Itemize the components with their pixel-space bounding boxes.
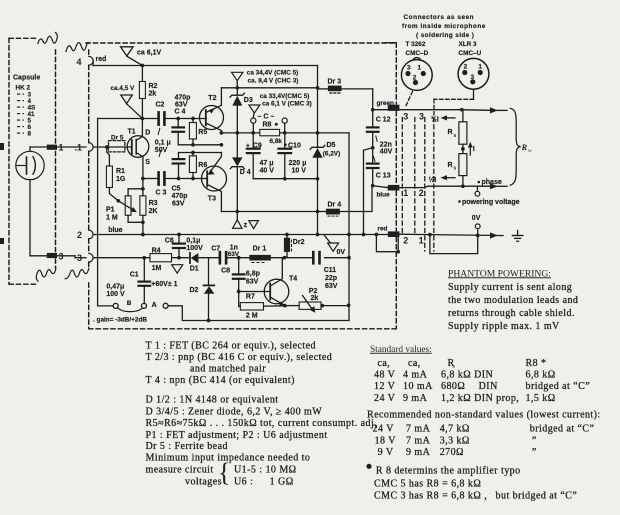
junction dot (372.7,185.7) — [371, 184, 375, 188]
rail 2 (y=87.8) T2 emitter feed — [221, 87, 317, 89]
junction dot (317.5,178.7) — [316, 177, 320, 181]
svg-text:7 mA: 7 mA — [406, 435, 431, 446]
svg-text:100 V: 100 V — [106, 291, 125, 298]
C9/C10 bottom wire — [253, 178, 317, 180]
svg-text:.1: .1 — [75, 143, 83, 153]
svg-text:4,7 kΩ: 4,7 kΩ — [440, 423, 470, 434]
junction dot (429.9,234.6) — [428, 233, 432, 237]
svg-text:blue: blue — [108, 227, 122, 234]
svg-text:ca 6,1 V (CMC 3): ca 6,1 V (CMC 3) — [262, 101, 312, 108]
svg-text:12 V: 12 V — [374, 381, 396, 392]
svg-text:C8: C8 — [221, 267, 230, 274]
capsule enclosure (dashed box) — [9, 37, 38, 39]
choke Dr3 — [330, 92, 332, 94]
current label half-I (bottom) — [446, 177, 455, 179]
junction dot (178.2,118.5) — [176, 117, 180, 121]
junction dot (208.5,320.5) — [207, 319, 211, 323]
capsule microphone symbol — [16, 151, 44, 179]
svg-text:2k: 2k — [149, 90, 157, 97]
svg-text:24 V: 24 V — [373, 423, 395, 434]
current arrow I — [468, 142, 473, 148]
svg-text:Dr 3: Dr 3 — [328, 78, 342, 85]
svg-text:T3: T3 — [208, 196, 216, 203]
svg-text:10 V: 10 V — [292, 167, 307, 174]
svg-text:1,5 kΩ: 1,5 kΩ — [526, 393, 556, 404]
resistor R4 1M — [150, 254, 172, 262]
chassis ground symbol — [512, 235, 522, 237]
wire capsule-3 to amp input — [57, 255, 75, 257]
junction dot (179,234.5) — [177, 233, 181, 237]
voltage marker ca 33,4V / 6,1V — [249, 105, 260, 113]
junction dot (142.9,222.3) — [141, 220, 145, 224]
junction dot (398.2,251.7) — [396, 250, 400, 254]
junction dot (253.2,132.9) — [251, 131, 255, 135]
svg-text:+: + — [246, 142, 250, 149]
junction dot (372.7,147.8) — [371, 146, 375, 150]
junction dot (376.4,234.5) — [375, 233, 379, 237]
capacitor C3 470p — [157, 172, 160, 184]
svg-text:R: R — [521, 142, 528, 152]
svg-text:3: 3 — [407, 64, 411, 71]
svg-text:100V: 100V — [186, 245, 203, 252]
svg-text:Dr2: Dr2 — [293, 239, 305, 246]
junction dot (144.3,257.7) — [142, 256, 146, 260]
svg-text:1M: 1M — [152, 265, 162, 272]
svg-text:CMC–D: CMC–D — [406, 50, 429, 57]
svg-text:and matched pair: and matched pair — [190, 363, 266, 374]
svg-text:B: B — [127, 300, 132, 307]
svg-text:1: 1 — [419, 236, 424, 246]
current label half-I (top) — [446, 117, 455, 119]
svg-text:P1 : FET adjustment; P2 : U6: P1 : FET adjustment; P2 : U6 adjustment — [146, 430, 328, 441]
green terminal block — [388, 105, 400, 111]
arrowhead phase lead — [490, 183, 498, 189]
junction dot (237.3,132.9) — [235, 131, 239, 135]
resistor R1 1G — [106, 147, 108, 152]
choke Dr2 (vertical) — [286, 235, 288, 238]
svg-text:1 M: 1 M — [106, 214, 118, 221]
svg-text:1: 1 — [59, 142, 64, 152]
svg-text:CMC–U: CMC–U — [459, 50, 482, 57]
svg-text:C 13: C 13 — [376, 173, 391, 180]
svg-text:2: 2 — [419, 188, 424, 198]
capacitor C6 0,1u — [178, 235, 180, 244]
svg-text:Recommended non-standard value: Recommended non-standard values (lowest … — [367, 410, 601, 421]
svg-text:ca 33,4V(CMC 5): ca 33,4V(CMC 5) — [260, 93, 310, 100]
bullet powering voltage — [458, 200, 461, 203]
svg-text:R3: R3 — [149, 200, 158, 207]
svg-text:47 μ: 47 μ — [260, 160, 274, 167]
svg-text:”: ” — [532, 447, 537, 458]
amplifier enclosure (dashed box) — [66, 42, 89, 51]
choke Dr4 — [328, 215, 330, 217]
svg-text:T2: T2 — [208, 95, 216, 102]
svg-text:63V: 63V — [325, 283, 338, 290]
svg-text:”: ” — [532, 435, 537, 446]
junction dot (118.3,200.8) — [116, 199, 120, 203]
svg-text:C 3: C 3 — [156, 189, 167, 196]
resistor R3 2K — [140, 196, 146, 216]
svg-text:3: 3 — [59, 252, 64, 262]
pin 2 T3262 — [413, 80, 418, 85]
svg-text:T 3262: T 3262 — [406, 41, 426, 48]
svg-text:C2: C2 — [156, 102, 165, 109]
svg-text:ca. 8,4 V (CHC 3): ca. 8,4 V (CHC 3) — [248, 78, 299, 85]
zener D3 — [236, 88, 238, 95]
scan artifact — [0, 238, 4, 244]
capacitor C9 47u electrolytic — [252, 133, 254, 148]
capsule terminal 3 block — [47, 253, 57, 258]
capacitor C10 220u electrolytic — [284, 133, 286, 148]
outside 0V return hook — [430, 235, 478, 254]
svg-text:0,1 μ: 0,1 μ — [155, 139, 171, 146]
voltage marker ca 34,4V / 8,4V — [232, 72, 243, 80]
D1 diode triangle — [191, 253, 199, 263]
junction dot (462.9,148.9) — [461, 147, 465, 151]
vertical link x=97.6 — [97, 119, 99, 306]
svg-text:18 V: 18 V — [375, 435, 397, 446]
junction dot (193,118.5) — [191, 117, 195, 121]
supply rail 1 (y=65.5) from terminal 4 — [92, 61, 94, 66]
blue conductor / phase wire — [399, 187, 424, 189]
gain link A/B terminals — [113, 303, 118, 308]
zener D5 6,2V — [310, 145, 325, 149]
pin 1 XLR3 — [478, 70, 483, 75]
capacitor C11 22p — [312, 252, 315, 263]
svg-text:0,1μ: 0,1μ — [186, 237, 200, 244]
svg-text:½I: ½I — [429, 176, 437, 184]
resistor R5 — [189, 123, 196, 140]
svg-text:4: 4 — [77, 57, 82, 67]
svg-text:Connectors as seen: Connectors as seen — [404, 14, 475, 21]
svg-text:0,47μ: 0,47μ — [106, 283, 124, 290]
reference marker triangles z — [236, 212, 238, 220]
svg-text:measure circuit: measure circuit — [146, 464, 214, 475]
svg-text:P2: P2 — [309, 288, 318, 295]
svg-text:2: 2 — [464, 63, 468, 70]
wire W178 lower signal — [143, 178, 157, 180]
svg-text:3: 3 — [77, 253, 82, 263]
svg-text:2 M: 2 M — [246, 312, 258, 319]
svg-text:– C –: – C – — [258, 113, 275, 120]
svg-text:63V: 63V — [246, 278, 259, 285]
svg-text:CMC 3 has R8 = 6,8 kΩ , but b: CMC 3 has R8 = 6,8 kΩ , but bridged at “… — [374, 490, 577, 501]
JFET T1 BC264 — [127, 136, 149, 158]
0V-to-red hook (inside) — [376, 235, 398, 252]
svg-text:0V: 0V — [472, 215, 481, 222]
resistor R7 2M — [240, 303, 263, 310]
junction dot (142.9,234.5) — [141, 233, 145, 237]
svg-text:D 1/2 : 1N 4148 or equivalent: D 1/2 : 1N 4148 or equivalent — [146, 395, 279, 406]
choke Dr2 body — [284, 238, 290, 252]
svg-text:680Ω DIN: 680Ω DIN — [441, 381, 498, 392]
svg-text:R: R — [448, 162, 453, 169]
svg-text:R1: R1 — [116, 168, 125, 175]
output vertical x=349 — [348, 133, 350, 321]
resistor Rs lower — [459, 154, 467, 176]
D2 diode triangle — [204, 286, 215, 294]
footnote bullet — [366, 464, 371, 469]
svg-text:ca 34,4V (CMC 5): ca 34,4V (CMC 5) — [247, 70, 298, 77]
junction dot (142.9,178.5) — [141, 177, 145, 181]
bridge C terminals — [251, 118, 256, 123]
junction dot (477.7,235.4) — [476, 234, 480, 238]
svg-text:C7: C7 — [211, 246, 220, 253]
svg-text:6,8 kΩ DIN: 6,8 kΩ DIN — [441, 370, 493, 381]
wire W144.8 — [178, 144, 221, 146]
trimmer P2 2k — [299, 302, 321, 309]
svg-text:CMC 5 has R8 = 6,8 kΩ: CMC 5 has R8 = 6,8 kΩ — [374, 478, 481, 489]
scan artifact — [0, 143, 4, 150]
svg-text:63V: 63V — [228, 251, 240, 258]
svg-text:8: 8 — [28, 130, 32, 137]
capacitor C13 — [364, 148, 373, 150]
ferrite bead Dr5 (dashed) — [109, 141, 125, 152]
svg-text:2: 2 — [413, 74, 417, 81]
choke Dr3 body — [328, 86, 342, 92]
svg-text:6,8p: 6,8p — [246, 270, 260, 277]
choke Dr4 body — [326, 209, 340, 215]
svg-text:Dr 4: Dr 4 — [328, 201, 342, 208]
svg-text:(6,2V): (6,2V) — [323, 151, 340, 158]
svg-text:A: A — [152, 302, 157, 309]
transistor T4 npn — [264, 279, 289, 304]
svg-text:PHANTOM POWERING:: PHANTOM POWERING: — [448, 268, 551, 279]
svg-text:XLR 3: XLR 3 — [459, 41, 478, 48]
svg-text:. gain= -3dB/+2dB: . gain= -3dB/+2dB — [93, 316, 147, 323]
svg-text:4 mA: 4 mA — [403, 370, 428, 381]
junction dot (142.4,118.5) — [141, 117, 145, 121]
R8 asterisk dot — [275, 123, 278, 126]
junction dot (317.5,211.5) — [316, 210, 320, 214]
svg-text:48 V: 48 V — [374, 370, 396, 381]
connector leads (dashed) — [406, 92, 413, 106]
junction dot (142.9,188.8) — [141, 187, 145, 191]
svg-text:S: S — [145, 159, 150, 166]
wire W152.5 — [179, 152, 222, 154]
svg-text:D: D — [145, 130, 150, 137]
trimmer P1 — [125, 196, 131, 216]
capacitor C2 470p — [157, 112, 160, 124]
svg-text:R4: R4 — [152, 247, 161, 254]
svg-text:R2: R2 — [149, 83, 158, 90]
svg-text:2K: 2K — [149, 208, 158, 215]
junction dot (142.4,65.5) — [141, 64, 145, 68]
junction dot (317.5,234.5) — [316, 233, 320, 237]
svg-text:D1: D1 — [190, 266, 199, 273]
D5 zener triangle — [312, 148, 322, 158]
junction dot (142.9,234.5) — [141, 233, 145, 237]
cable pair 1 (dashed) — [401, 118, 403, 234]
svg-text:Dr 1: Dr 1 — [253, 246, 267, 253]
current arrow half-I top — [441, 115, 448, 120]
input terminal bumps on left edge — [89, 56, 93, 65]
capacitor C5 (vertical) — [178, 153, 180, 159]
diode D2 (shunt) — [208, 258, 210, 284]
junction dot (238.7,291.5) — [237, 290, 241, 294]
svg-text:z: z — [244, 222, 248, 229]
svg-text:T 4 : npn (BC 414 (or equival: T 4 : npn (BC 414 (or equivalent) — [146, 375, 295, 386]
junction dot (178.5,178.5) — [177, 177, 181, 181]
junction dot (348.6,305.3) — [347, 303, 351, 307]
svg-text:6,8 kΩ: 6,8 kΩ — [526, 370, 556, 381]
bullet phase — [478, 181, 481, 184]
svg-text:s: s — [454, 133, 457, 139]
svg-text:22p: 22p — [325, 275, 337, 282]
junction dot (322.3,305.6) — [320, 304, 324, 308]
junction dot (372.7,109.7) — [371, 108, 375, 112]
svg-text:40V: 40V — [380, 148, 393, 155]
svg-text:9 mA: 9 mA — [403, 393, 428, 404]
svg-text:T4: T4 — [289, 275, 297, 282]
C10 polarity dot — [284, 143, 287, 146]
svg-text:P1: P1 — [106, 206, 115, 213]
transistor T2 pnp — [200, 106, 224, 130]
svg-text:Dr 5: Dr 5 — [111, 134, 124, 141]
arrowhead 0V lead — [490, 232, 498, 238]
svg-text:from inside microphone: from inside microphone — [402, 23, 486, 30]
0V marker triangle — [325, 236, 331, 244]
svg-text:Supply current is sent along: Supply current is sent along — [448, 282, 572, 293]
svg-text:R7: R7 — [246, 293, 255, 300]
supply vertical x=317.5 — [317, 66, 319, 147]
pin 3 XLR3 — [470, 79, 475, 84]
choke Dr1 — [252, 262, 254, 264]
junction dot (317.5,132.9) — [316, 131, 320, 135]
current arrow I — [469, 146, 471, 155]
voltage marker +60V — [172, 265, 183, 274]
pin 3 T3262 — [405, 71, 410, 76]
wire W118 signal top — [98, 118, 158, 120]
svg-text:red: red — [96, 56, 107, 63]
red conductor / 0V wire — [399, 233, 430, 235]
junction dot (349,234.5) — [347, 233, 351, 237]
svg-text:2: 2 — [403, 236, 408, 246]
svg-text:9 mA: 9 mA — [406, 447, 431, 458]
brace Rw load — [510, 108, 520, 185]
svg-text:470p: 470p — [175, 94, 191, 101]
junction dot (193,144.8) — [191, 143, 195, 147]
svg-text:1G: 1G — [116, 176, 126, 183]
junction dot (287,234.5) — [285, 233, 289, 237]
svg-text:2k: 2k — [311, 295, 319, 302]
svg-text:63V: 63V — [172, 200, 185, 207]
capacitor C4 (vertical) — [177, 119, 179, 128]
svg-text:Capsule: Capsule — [13, 75, 40, 82]
arrowhead green lead — [490, 107, 498, 113]
junction dot (221.4,144.8) — [220, 143, 224, 147]
blue terminal block — [388, 185, 400, 191]
svg-text:220 μ: 220 μ — [289, 160, 307, 167]
svg-text:1: 1 — [418, 64, 422, 71]
voltage marker ca 6,1V — [121, 47, 134, 56]
svg-text:D 4: D 4 — [240, 169, 251, 176]
svg-text:270Ω: 270Ω — [440, 447, 464, 458]
pin 2 XLR3 — [462, 70, 467, 75]
P1 wiper arrowhead — [131, 207, 137, 212]
svg-text:C5: C5 — [172, 185, 181, 192]
transistor T3 pnp — [202, 166, 227, 191]
svg-text:R5≈R6≈75kΩ . . . 150kΩ tot, c: R5≈R6≈75kΩ . . . 150kΩ tot, current cons… — [146, 418, 378, 429]
svg-text:D5: D5 — [327, 142, 336, 149]
svg-text:7 mA: 7 mA — [406, 423, 431, 434]
svg-text:s: s — [454, 166, 457, 172]
svg-text:0V: 0V — [337, 249, 346, 256]
resistor R2 2k — [141, 66, 143, 82]
svg-text:1: 1 — [403, 188, 408, 198]
svg-text:40 V: 40 V — [260, 167, 275, 174]
zener D4 — [236, 133, 238, 157]
T2 emitter arrow — [209, 108, 215, 113]
green conductor wire — [399, 109, 459, 111]
junction dot (284.8,305.6) — [283, 304, 287, 308]
svg-text:ca 6,1V: ca 6,1V — [137, 50, 161, 57]
main mid rail (y=132.9) — [221, 132, 349, 134]
svg-text:1,2 kΩ DIN prop,: 1,2 kΩ DIN prop, — [441, 393, 519, 404]
svg-text:C10: C10 — [288, 143, 301, 150]
wire capsule-1 to amp input — [57, 146, 86, 148]
second stage input wire y=257.7 — [93, 257, 150, 259]
svg-text:470p: 470p — [172, 193, 188, 200]
svg-text:½I: ½I — [431, 116, 439, 124]
capsule list leader dots — [17, 94, 20, 95]
junction dot (221.4,132.9) — [220, 131, 224, 135]
D4 zener triangle — [232, 157, 242, 166]
capacitor C8 6,8p — [238, 258, 240, 274]
connector T3262 CMC-D — [401, 60, 432, 91]
P2 wiper arrowhead — [309, 306, 315, 313]
svg-text:U6 : 1 GΩ: U6 : 1 GΩ — [234, 476, 294, 487]
svg-text:3,3 kΩ: 3,3 kΩ — [440, 435, 470, 446]
0V output node — [475, 224, 480, 229]
svg-text:R6: R6 — [198, 162, 207, 169]
svg-text:D 3/4/5 : Zener diode, 6,2 V,: D 3/4/5 : Zener diode, 6,2 V, ≥ 400 mW — [146, 406, 323, 417]
svg-text:+60V± 1: +60V± 1 — [151, 281, 177, 288]
svg-text:red: red — [378, 225, 388, 232]
svg-text:1: 1 — [478, 63, 482, 70]
junction dot (193,178.5) — [191, 177, 195, 181]
junction dot (349,257.7) — [347, 256, 351, 260]
svg-text:C 4: C 4 — [175, 108, 186, 115]
svg-text:22n: 22n — [380, 141, 392, 148]
svg-text:C1: C1 — [130, 272, 139, 279]
svg-text:R8: R8 — [263, 122, 272, 129]
blue terminal wire — [373, 186, 388, 188]
svg-text:U1-5 : 10 MΩ: U1-5 : 10 MΩ — [234, 464, 297, 475]
junction dot (284.8,178.7) — [283, 177, 287, 181]
choke Dr1 body — [249, 255, 270, 261]
svg-text:D2: D2 — [190, 287, 199, 294]
svg-text:Standard values:: Standard values: — [370, 345, 432, 355]
svg-text:3: 3 — [419, 111, 424, 121]
svg-text:voltages: voltages — [185, 476, 222, 487]
svg-text:C 12: C 12 — [376, 117, 391, 124]
svg-text:powering voltage: powering voltage — [462, 199, 520, 206]
svg-text:R: R — [448, 129, 453, 136]
svg-text:C11: C11 — [324, 267, 337, 274]
svg-text:R8 *: R8 * — [526, 358, 547, 369]
junction dot (193,152.5) — [191, 151, 195, 155]
svg-text:T1: T1 — [128, 128, 136, 135]
D3 zener triangle — [232, 96, 242, 106]
svg-text:C6: C6 — [165, 237, 174, 244]
svg-text:9 V: 9 V — [378, 447, 394, 458]
pin 1 T3262 — [421, 71, 426, 76]
T3 emitter arrow — [208, 169, 215, 175]
svg-text:C9: C9 — [253, 143, 262, 150]
junction dot (179,257.7) — [177, 256, 181, 260]
cable pair 2 (dashed) — [424, 118, 426, 252]
